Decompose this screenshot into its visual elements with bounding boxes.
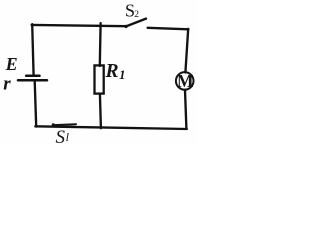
switch S1 pivot: [52, 123, 55, 126]
wire bottom horizontal: [35, 126, 187, 129]
switch S2 lever: [126, 19, 146, 27]
switch S1 lever: [54, 123, 76, 126]
wire top-right horizontal: [148, 28, 189, 30]
switch S2 pivot: [124, 25, 127, 28]
svg-text:r: r: [3, 74, 11, 95]
battery E top plate: [26, 75, 39, 78]
wire right vertical upper: [185, 29, 188, 73]
motor M1 circle: [176, 72, 194, 90]
svg-text:E: E: [5, 54, 18, 74]
svg-text:1: 1: [119, 67, 126, 82]
svg-text:R: R: [105, 61, 119, 82]
wire left vertical lower: [35, 81, 37, 127]
wire middle branch upper: [99, 23, 102, 66]
svg-text:M: M: [177, 71, 194, 91]
wire right vertical lower: [185, 90, 186, 129]
wire top-left horizontal: [32, 25, 126, 26]
svg-text:2: 2: [134, 10, 139, 20]
resistor R1 box: [95, 65, 104, 93]
svg-text:S: S: [56, 127, 66, 145]
wire middle branch lower: [100, 94, 101, 129]
svg-text:l: l: [66, 130, 70, 144]
battery E bottom plate: [18, 79, 47, 82]
wire left vertical upper: [32, 24, 33, 75]
